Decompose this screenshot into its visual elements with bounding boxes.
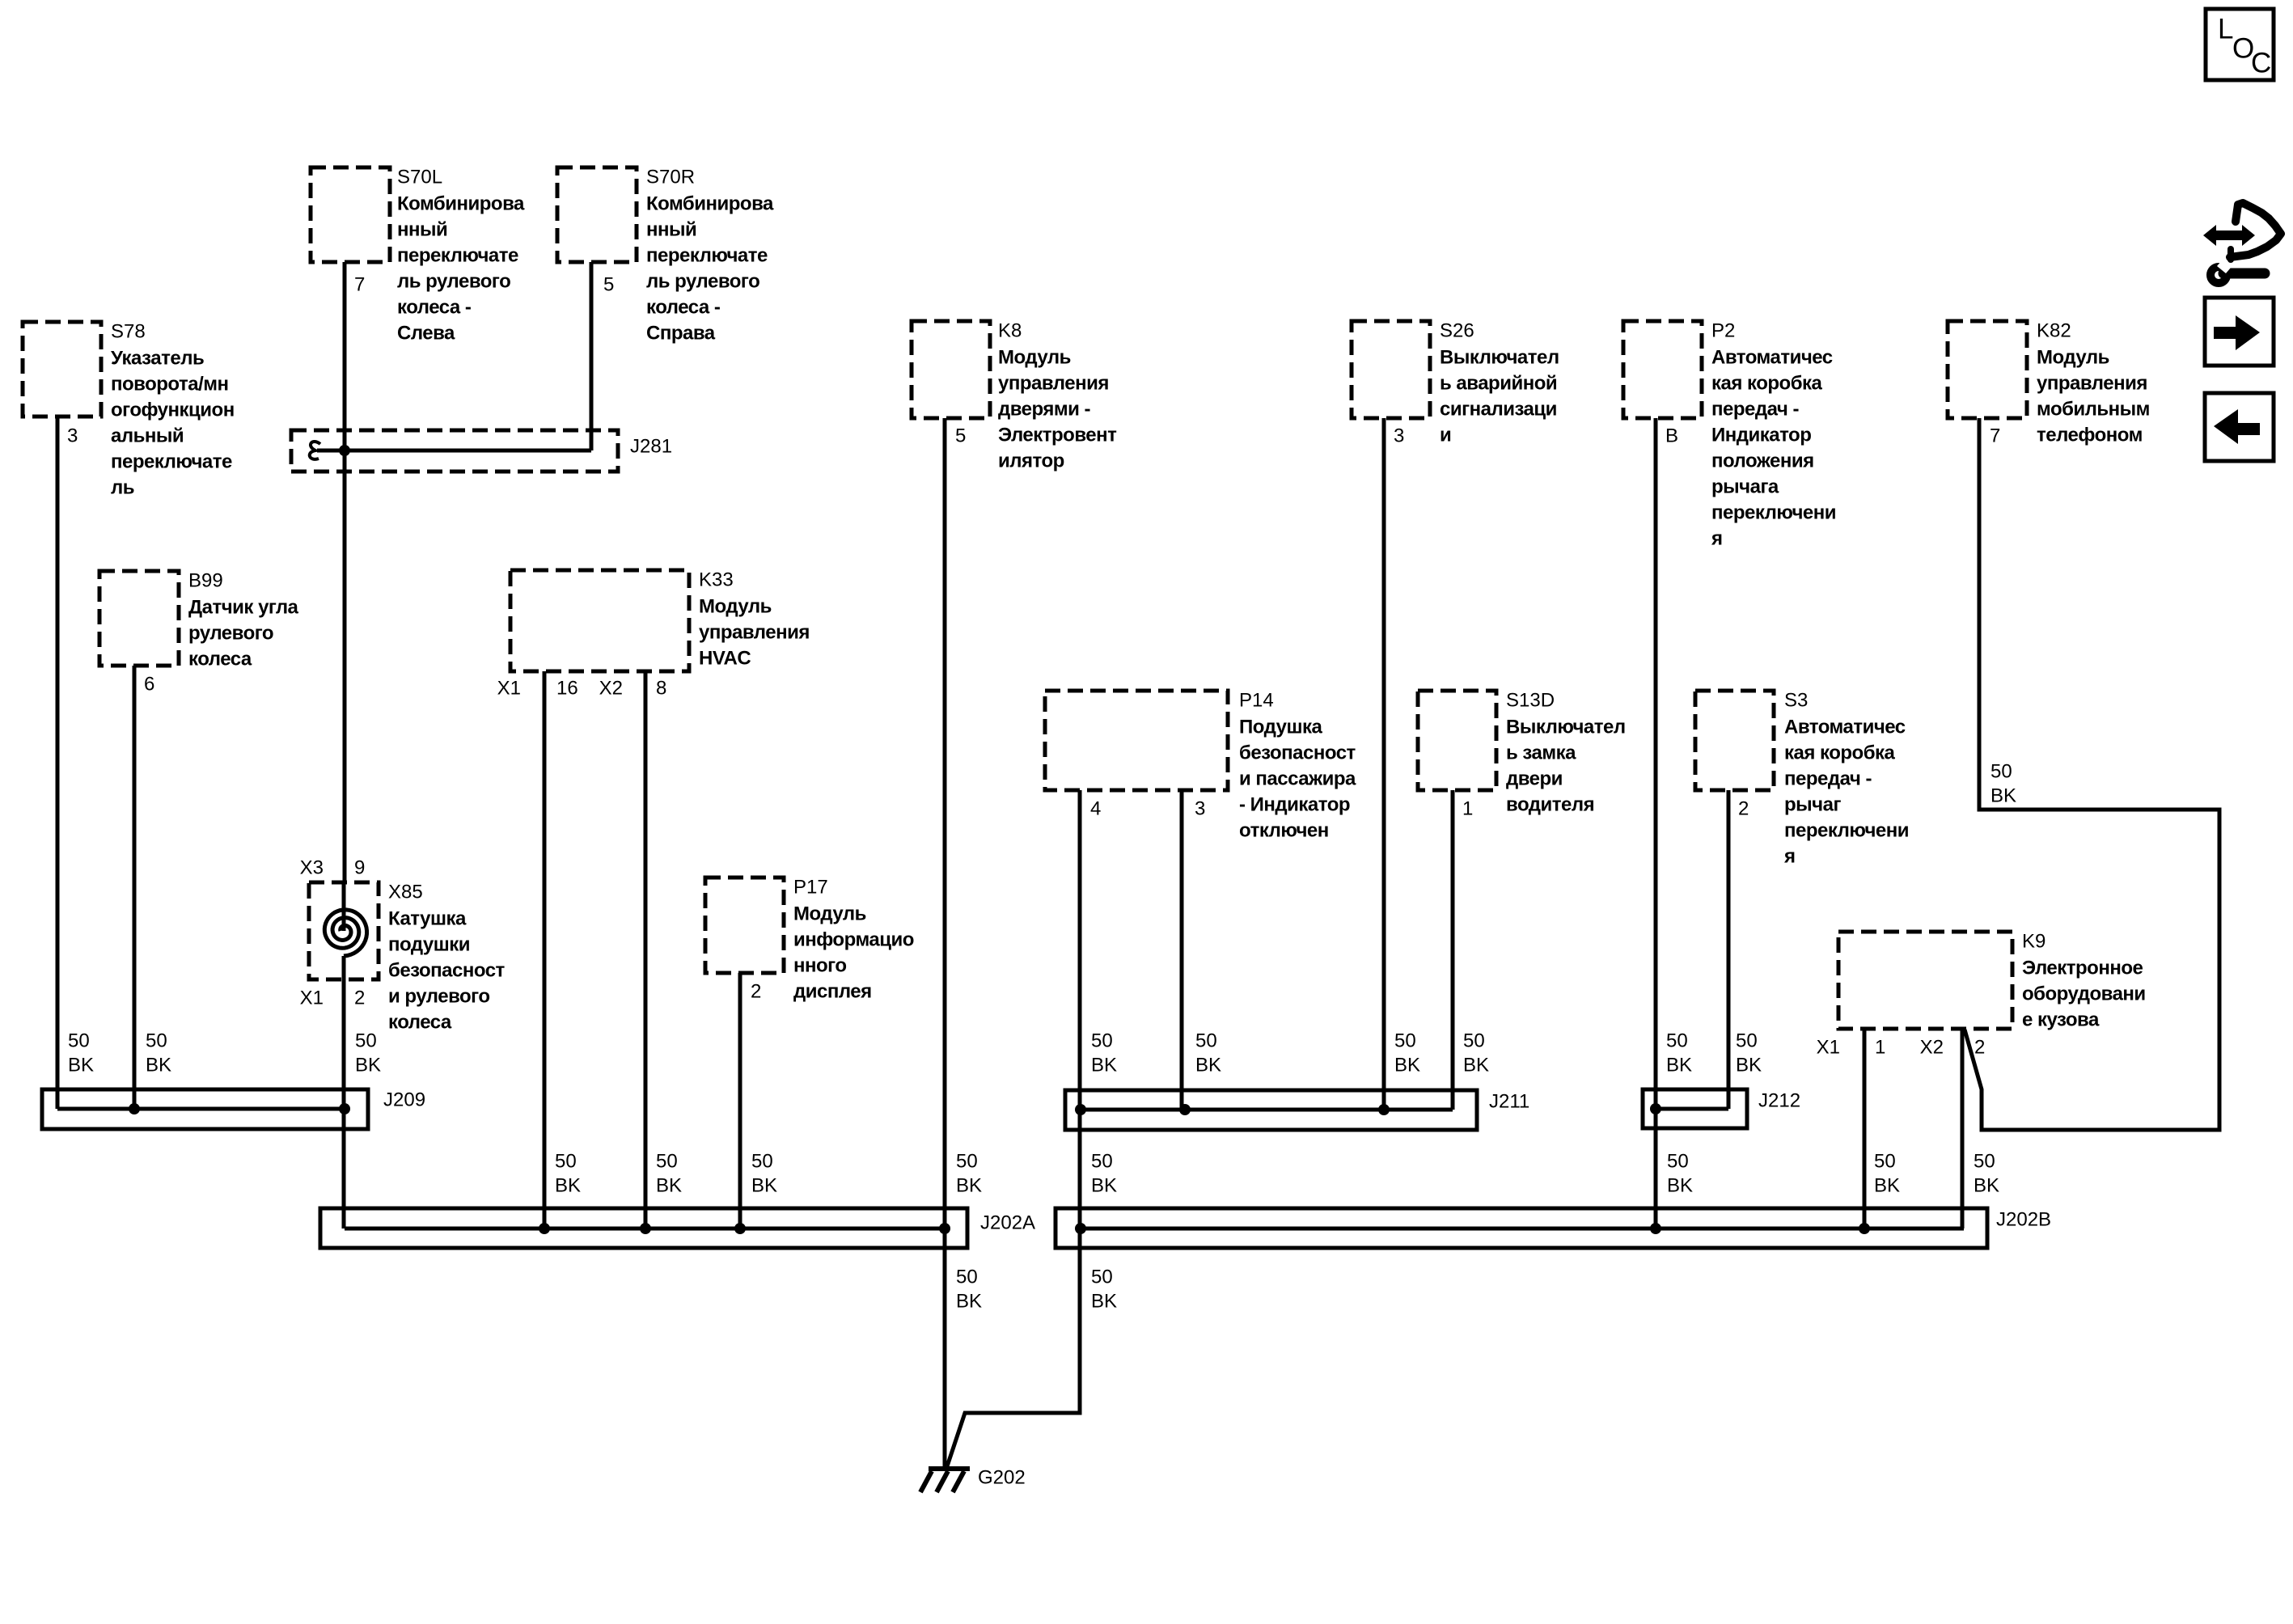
svg-text:переключате: переключате — [397, 245, 518, 267]
svg-text:G202: G202 — [978, 1467, 1026, 1489]
svg-text:K82: K82 — [2037, 320, 2071, 342]
svg-text:рычаг: рычаг — [1784, 794, 1841, 816]
svg-text:BK: BK — [1666, 1055, 1692, 1076]
svg-text:сигнализаци: сигнализаци — [1440, 399, 1557, 421]
svg-text:двери: двери — [1506, 768, 1563, 790]
svg-text:нного: нного — [793, 955, 847, 977]
svg-text:2: 2 — [354, 988, 365, 1009]
svg-text:Модуль: Модуль — [2037, 347, 2109, 369]
svg-text:B: B — [1665, 425, 1678, 447]
svg-text:переключате: переключате — [111, 451, 232, 473]
svg-text:K9: K9 — [2022, 931, 2046, 953]
svg-text:Катушка: Катушка — [388, 908, 467, 930]
svg-text:C: C — [2251, 48, 2271, 79]
svg-text:информацио: информацио — [793, 929, 914, 951]
svg-text:кая коробка: кая коробка — [1711, 373, 1823, 395]
svg-text:2: 2 — [1738, 798, 1749, 820]
svg-text:50: 50 — [1463, 1030, 1485, 1052]
svg-text:50: 50 — [751, 1151, 773, 1173]
svg-text:передач -: передач - — [1711, 399, 1799, 421]
svg-text:BK: BK — [1091, 1291, 1117, 1313]
svg-text:6: 6 — [144, 674, 154, 696]
svg-text:положения: положения — [1711, 450, 1814, 472]
svg-text:Комбинирова: Комбинирова — [397, 193, 525, 215]
svg-text:50: 50 — [1091, 1151, 1113, 1173]
svg-text:поворота/мн: поворота/мн — [111, 374, 229, 395]
svg-text:5: 5 — [603, 274, 614, 296]
svg-text:3: 3 — [1195, 798, 1205, 820]
svg-text:3: 3 — [67, 425, 78, 447]
svg-text:S3: S3 — [1784, 690, 1808, 712]
svg-text:ль рулевого: ль рулевого — [646, 271, 759, 293]
svg-text:9: 9 — [354, 857, 365, 879]
svg-text:BK: BK — [1091, 1175, 1117, 1197]
svg-text:Электровент: Электровент — [998, 425, 1117, 446]
svg-text:и: и — [1440, 425, 1451, 446]
svg-text:L: L — [2218, 14, 2233, 45]
svg-text:BK: BK — [1974, 1175, 1999, 1197]
svg-text:J209: J209 — [383, 1089, 425, 1111]
svg-text:Датчик угла: Датчик угла — [188, 597, 299, 619]
svg-text:2: 2 — [1974, 1037, 1985, 1059]
svg-text:B99: B99 — [188, 570, 223, 592]
svg-text:J281: J281 — [630, 436, 672, 458]
svg-text:Указатель: Указатель — [111, 348, 204, 370]
svg-text:Комбинирова: Комбинирова — [646, 193, 774, 215]
svg-text:X2: X2 — [1920, 1037, 1944, 1059]
svg-text:7: 7 — [354, 274, 365, 296]
svg-text:S13D: S13D — [1506, 690, 1555, 712]
svg-text:Слева: Слева — [397, 323, 455, 345]
svg-text:BK: BK — [1991, 785, 2016, 807]
svg-text:J211: J211 — [1489, 1091, 1529, 1113]
svg-text:8: 8 — [656, 678, 666, 700]
svg-text:50: 50 — [1091, 1030, 1113, 1052]
svg-text:X85: X85 — [388, 882, 423, 903]
svg-text:колеса: колеса — [188, 649, 252, 670]
svg-text:е кузова: е кузова — [2022, 1009, 2100, 1031]
svg-text:нный: нный — [646, 219, 696, 241]
svg-text:HVAC: HVAC — [699, 648, 751, 670]
svg-text:и пассажира: и пассажира — [1239, 768, 1356, 790]
svg-text:управления: управления — [998, 373, 1109, 395]
svg-text:ль рулевого: ль рулевого — [397, 271, 510, 293]
svg-text:50: 50 — [555, 1151, 577, 1173]
svg-text:телефоном: телефоном — [2037, 425, 2143, 446]
svg-text:BK: BK — [1091, 1055, 1117, 1076]
svg-text:переключени: переключени — [1711, 502, 1836, 524]
svg-text:передач -: передач - — [1784, 768, 1872, 790]
svg-text:я: я — [1783, 846, 1796, 868]
svg-text:1: 1 — [1462, 798, 1473, 820]
svg-text:альный: альный — [111, 425, 184, 447]
svg-text:огофункцион: огофункцион — [111, 400, 235, 421]
svg-text:Электронное: Электронное — [2022, 958, 2143, 979]
svg-text:4: 4 — [1090, 798, 1101, 820]
svg-text:50: 50 — [656, 1151, 678, 1173]
svg-text:илятор: илятор — [998, 450, 1064, 472]
svg-text:J202A: J202A — [980, 1212, 1035, 1234]
svg-text:Автоматичес: Автоматичес — [1784, 717, 1906, 738]
svg-text:переключени: переключени — [1784, 820, 1909, 842]
svg-text:колеса -: колеса - — [397, 297, 472, 319]
svg-text:50: 50 — [1736, 1030, 1758, 1052]
svg-text:50: 50 — [146, 1030, 167, 1052]
svg-text:P17: P17 — [793, 877, 828, 899]
svg-text:Подушка: Подушка — [1239, 717, 1322, 738]
svg-text:Модуль: Модуль — [699, 596, 772, 618]
svg-text:BK: BK — [555, 1175, 581, 1197]
svg-text:X1: X1 — [300, 988, 324, 1009]
svg-text:кая коробка: кая коробка — [1784, 742, 1896, 764]
svg-text:X1: X1 — [1817, 1037, 1840, 1059]
svg-text:колеса -: колеса - — [646, 297, 721, 319]
svg-text:S70L: S70L — [397, 167, 442, 188]
svg-text:рычага: рычага — [1711, 476, 1779, 498]
svg-text:50: 50 — [1974, 1151, 1995, 1173]
svg-text:безопасност: безопасност — [388, 960, 506, 982]
svg-text:BK: BK — [751, 1175, 777, 1197]
svg-text:BK: BK — [956, 1291, 982, 1313]
svg-text:S70R: S70R — [646, 167, 695, 188]
svg-text:Модуль: Модуль — [998, 347, 1071, 369]
svg-text:2: 2 — [751, 981, 761, 1003]
svg-text:50: 50 — [1874, 1151, 1896, 1173]
svg-text:X2: X2 — [599, 678, 623, 700]
svg-text:BK: BK — [68, 1055, 94, 1076]
svg-text:50: 50 — [1195, 1030, 1217, 1052]
svg-text:оборудовани: оборудовани — [2022, 983, 2146, 1005]
svg-text:дисплея: дисплея — [793, 981, 872, 1003]
svg-text:BK: BK — [1195, 1055, 1221, 1076]
svg-text:переключате: переключате — [646, 245, 768, 267]
svg-text:колеса: колеса — [388, 1012, 452, 1034]
svg-text:Справа: Справа — [646, 323, 716, 345]
svg-text:BK: BK — [1463, 1055, 1489, 1076]
svg-text:BK: BK — [1394, 1055, 1420, 1076]
svg-text:Выключател: Выключател — [1440, 347, 1559, 369]
svg-text:дверями -: дверями - — [998, 399, 1091, 421]
svg-text:BK: BK — [146, 1055, 171, 1076]
svg-text:50: 50 — [956, 1151, 978, 1173]
svg-text:- Индикатор: - Индикатор — [1239, 794, 1350, 816]
svg-text:ь аварийной: ь аварийной — [1440, 373, 1557, 395]
svg-text:3: 3 — [1394, 425, 1404, 447]
svg-text:50: 50 — [1991, 761, 2012, 783]
svg-text:S78: S78 — [111, 321, 146, 343]
svg-text:J212: J212 — [1758, 1090, 1800, 1112]
svg-text:P14: P14 — [1239, 690, 1274, 712]
svg-text:BK: BK — [1736, 1055, 1762, 1076]
svg-text:Модуль: Модуль — [793, 903, 866, 925]
svg-text:мобильным: мобильным — [2037, 399, 2150, 421]
svg-text:50: 50 — [355, 1030, 377, 1052]
svg-text:X1: X1 — [497, 678, 521, 700]
svg-text:16: 16 — [556, 678, 578, 700]
svg-text:50: 50 — [1394, 1030, 1416, 1052]
svg-text:S26: S26 — [1440, 320, 1474, 342]
svg-text:управления: управления — [2037, 373, 2147, 395]
svg-text:X3: X3 — [300, 857, 324, 879]
svg-text:я: я — [1711, 528, 1723, 550]
svg-text:BK: BK — [355, 1055, 381, 1076]
svg-text:отключен: отключен — [1239, 820, 1329, 842]
svg-text:K33: K33 — [699, 569, 734, 591]
svg-text:рулевого: рулевого — [188, 623, 273, 645]
svg-text:7: 7 — [1990, 425, 2000, 447]
svg-text:Выключател: Выключател — [1506, 717, 1626, 738]
svg-text:ь замка: ь замка — [1506, 742, 1576, 764]
svg-text:50: 50 — [1666, 1030, 1688, 1052]
svg-text:безопасност: безопасност — [1239, 742, 1356, 764]
svg-text:и рулевого: и рулевого — [388, 986, 490, 1008]
svg-text:BK: BK — [1874, 1175, 1900, 1197]
svg-text:J202B: J202B — [1996, 1209, 2051, 1231]
svg-text:50: 50 — [1091, 1267, 1113, 1288]
svg-text:50: 50 — [68, 1030, 90, 1052]
svg-text:Индикатор: Индикатор — [1711, 425, 1811, 446]
svg-text:50: 50 — [1667, 1151, 1689, 1173]
svg-text:5: 5 — [955, 425, 966, 447]
svg-text:BK: BK — [956, 1175, 982, 1197]
svg-text:1: 1 — [1875, 1037, 1885, 1059]
svg-text:Автоматичес: Автоматичес — [1711, 347, 1833, 369]
svg-text:P2: P2 — [1711, 320, 1735, 342]
svg-text:подушки: подушки — [388, 934, 470, 956]
svg-text:K8: K8 — [998, 320, 1022, 342]
svg-text:управления: управления — [699, 622, 810, 644]
svg-text:50: 50 — [956, 1267, 978, 1288]
svg-text:ль: ль — [111, 477, 134, 499]
svg-text:нный: нный — [397, 219, 447, 241]
svg-text:водителя: водителя — [1506, 794, 1594, 816]
svg-text:BK: BK — [1667, 1175, 1693, 1197]
svg-text:BK: BK — [656, 1175, 682, 1197]
